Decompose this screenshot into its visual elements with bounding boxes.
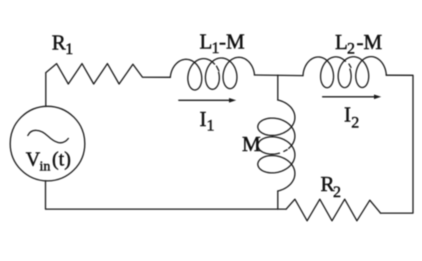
svg-text:L: L bbox=[335, 30, 348, 54]
svg-text:I: I bbox=[200, 107, 207, 131]
svg-text:2: 2 bbox=[333, 184, 341, 201]
svg-text:-M: -M bbox=[219, 30, 245, 54]
svg-text:2: 2 bbox=[347, 41, 355, 58]
svg-text:L: L bbox=[200, 30, 213, 54]
svg-text:M: M bbox=[242, 132, 261, 156]
svg-text:R: R bbox=[52, 31, 66, 55]
svg-text:1: 1 bbox=[207, 118, 215, 135]
svg-text:2: 2 bbox=[351, 114, 359, 131]
svg-text:(t): (t) bbox=[52, 149, 71, 171]
svg-text:1: 1 bbox=[65, 41, 73, 58]
svg-text:-M: -M bbox=[357, 30, 383, 54]
svg-text:in: in bbox=[40, 160, 51, 175]
svg-text:I: I bbox=[344, 102, 351, 126]
